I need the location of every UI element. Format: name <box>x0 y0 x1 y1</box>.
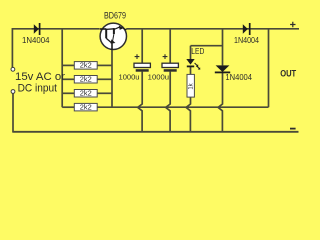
svg-text:LED: LED <box>191 47 204 56</box>
svg-text:1N4004: 1N4004 <box>234 36 259 45</box>
svg-text:15v AC or: 15v AC or <box>15 71 65 83</box>
svg-text:1N4004: 1N4004 <box>225 73 252 82</box>
svg-text:OUT: OUT <box>280 69 296 79</box>
svg-text:BD679: BD679 <box>104 10 126 20</box>
svg-text:2k2: 2k2 <box>80 105 92 112</box>
svg-text:1k: 1k <box>189 82 195 89</box>
svg-text:2k2: 2k2 <box>80 63 92 70</box>
svg-text:1000u: 1000u <box>119 72 140 81</box>
svg-text:2k2: 2k2 <box>80 91 92 98</box>
svg-text:1000u: 1000u <box>148 72 169 81</box>
svg-text:2k2: 2k2 <box>80 77 92 84</box>
svg-text:1N4004: 1N4004 <box>22 36 50 45</box>
svg-text:DC input: DC input <box>18 83 58 95</box>
